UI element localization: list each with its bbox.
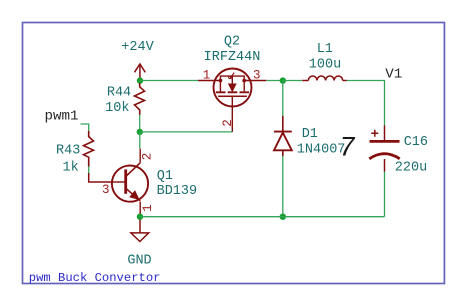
node junction at +24V rail — [137, 77, 143, 83]
wire +24V rail to Q2 pin1 — [140, 80, 198, 82]
svg-text:R44: R44 — [107, 85, 131, 100]
collector pin — [139, 149, 141, 163]
svg-text:BD139: BD139 — [157, 184, 198, 199]
svg-text:3: 3 — [102, 183, 110, 197]
bottom plate arc — [369, 154, 399, 159]
svg-text:1: 1 — [141, 204, 155, 212]
bottom rail wire — [140, 216, 385, 218]
svg-text:2: 2 — [221, 119, 235, 127]
diode D1 — [274, 116, 292, 157]
resistor R44 — [135, 83, 145, 115]
svg-text:2: 2 — [140, 153, 154, 161]
pin 2 lead — [231, 96, 233, 132]
internal top bar — [220, 76, 244, 80]
wire to Q1 base — [89, 173, 113, 182]
top plate — [370, 140, 400, 143]
svg-text:10k: 10k — [105, 101, 129, 116]
svg-text:3: 3 — [253, 69, 261, 83]
wire R43 bottom — [88, 167, 90, 174]
plus sign — [371, 130, 378, 137]
svg-text:D1: D1 — [302, 127, 318, 142]
svg-text:Q1: Q1 — [157, 169, 173, 184]
base bar — [124, 169, 127, 193]
wire node to L1 — [283, 80, 303, 82]
svg-text:100u: 100u — [309, 57, 341, 72]
svg-text:+24V: +24V — [121, 40, 154, 55]
node junction switch node — [280, 77, 286, 83]
svg-text:pwm Buck Convertor: pwm Buck Convertor — [29, 271, 161, 285]
junction dots inside Q2 — [219, 79, 223, 83]
wire R44 bottom to gate node — [139, 115, 141, 132]
capacitor C16 — [369, 126, 399, 172]
svg-text:pwm1: pwm1 — [45, 109, 79, 125]
svg-text:V1: V1 — [385, 66, 402, 82]
wire C16 to bottom rail — [384, 172, 386, 217]
anode triangle — [274, 133, 292, 151]
base pin — [113, 181, 126, 183]
collector diagonal — [126, 163, 141, 177]
svg-text:C16: C16 — [404, 135, 428, 150]
node junction diode/bottom rail — [280, 214, 286, 220]
svg-text:7: 7 — [339, 133, 356, 164]
svg-text:1k: 1k — [62, 160, 78, 175]
svg-text:R43: R43 — [56, 144, 80, 159]
cathode bar — [274, 131, 292, 133]
transistor Q2 IRFZ44N (MOSFET) — [198, 69, 266, 132]
svg-text:1: 1 — [203, 69, 211, 83]
wire pwm1 to R43 — [81, 124, 89, 131]
emitter diagonal — [126, 188, 141, 201]
pin 1 lead — [198, 80, 220, 82]
wire L1 to V1 corner — [347, 81, 385, 126]
body diode mark on top bar — [230, 73, 234, 79]
svg-text:Q2: Q2 — [224, 34, 240, 49]
svg-text:L1: L1 — [317, 42, 333, 57]
body arrow of Q2 — [229, 84, 236, 91]
node junction emitter/GND/bottom rail — [137, 214, 143, 220]
center stem — [231, 76, 233, 84]
resistor R43 — [84, 131, 94, 167]
internal verticals to channel — [219, 81, 221, 92]
svg-text:IRFZ44N: IRFZ44N — [204, 50, 261, 65]
svg-text:220u: 220u — [395, 160, 427, 175]
gate line — [218, 95, 247, 97]
transistor Q1 BD139 — [112, 149, 148, 214]
wire switch node down to D1 — [282, 81, 284, 116]
pin 3 lead — [244, 80, 266, 82]
emitter pin — [139, 202, 141, 215]
wire gate node to Q2 pin2 — [140, 131, 233, 133]
ground symbol — [131, 220, 149, 242]
wire Q2 pin3 to node — [266, 80, 283, 82]
wire gate node down to Q1 collector — [139, 132, 141, 149]
inductor L1 — [302, 76, 346, 81]
svg-text:GND: GND — [127, 254, 151, 269]
node junction R44/gate/Q1 — [137, 129, 143, 135]
power symbol +24V — [135, 64, 146, 81]
border frame — [23, 23, 445, 284]
channel bars — [216, 91, 226, 93]
emitter arrow of Q1 — [130, 191, 138, 199]
wire D1 to bottom rail — [282, 156, 284, 216]
